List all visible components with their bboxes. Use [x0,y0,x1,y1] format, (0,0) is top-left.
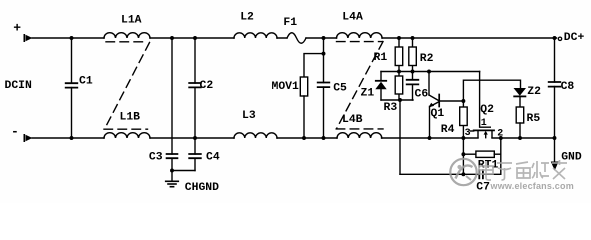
svg-text:DC+: DC+ [564,32,585,44]
capacitor C8 [549,38,561,138]
node RT1 right top [499,136,503,140]
svg-text:GND: GND [561,151,582,163]
svg-text:C4: C4 [206,152,220,164]
node Q1 base / R4 [461,99,465,103]
node MOV1/C5 top [322,36,326,40]
wire bottom rail [32,137,555,139]
svg-text:L4B: L4B [342,114,363,126]
node R2/C6 [411,70,415,74]
svg-text:MOV1: MOV1 [272,81,300,93]
svg-text:Z2: Z2 [527,86,541,98]
svg-text:F1: F1 [283,17,297,29]
inductor L1B [104,133,150,138]
svg-text:Q1: Q1 [431,108,445,120]
svg-text:C2: C2 [200,80,214,92]
ground CHGND (chassis) [166,171,179,187]
inductor L1A [104,33,150,38]
svg-text:Q2: Q2 [480,104,494,116]
resistor R3 [395,72,403,101]
capacitor C2 (X cap between rails) [189,38,201,138]
wire top rail [32,37,557,39]
wire bus A (below R1/R2) [381,71,480,73]
wire bus C (Z1/R3/C6 bottoms) [381,99,413,101]
svg-text:C6: C6 [415,89,429,101]
svg-text:3: 3 [465,128,471,139]
transistor Q1 [429,72,464,139]
node C5 bottom [322,136,326,140]
core L4 (dashed) [336,42,383,129]
node C7 left join [461,172,465,176]
svg-text:-: - [11,124,19,139]
svg-text:C8: C8 [561,81,575,93]
fuse F1 [287,33,306,44]
svg-text:R1: R1 [374,52,388,64]
inductor L4A [337,33,383,38]
svg-text:R4: R4 [441,124,455,136]
node C2/C4 bottom [193,136,197,140]
inductor L4B [337,133,382,138]
node C3 top [170,36,174,40]
svg-text:L1B: L1B [120,111,141,123]
wire C5 drop + MOV1 branch [304,38,324,83]
watermark elecfans [450,159,574,191]
svg-text:C7: C7 [476,181,490,193]
capacitor C7 [400,170,501,178]
resistor R2 [409,38,417,72]
svg-text:C5: C5 [333,83,347,95]
inductor L3 [234,133,277,138]
terminal DC+ circle [558,37,561,40]
svg-text:DCIN: DCIN [5,80,33,92]
svg-text:CHGND: CHGND [185,182,219,194]
resistor R5 [516,107,524,138]
svg-text:L2: L2 [240,11,254,23]
svg-text:www.elecfans.com: www.elecfans.com [490,181,574,191]
svg-text:L4A: L4A [342,11,363,23]
node C8 bottom / rail end [553,136,557,140]
svg-text:Z1: Z1 [361,88,375,100]
zener Z2 [514,88,527,107]
zener Z1 [375,72,386,101]
resistor R4 [460,101,468,138]
node Q1 emitter at rail [428,136,432,140]
svg-text:2: 2 [497,129,503,140]
node R3 bottom [398,98,402,102]
node C3/C4 join [170,169,174,173]
svg-text:C1: C1 [79,76,93,88]
node C2 top [193,36,197,40]
svg-text:L1A: L1A [121,15,142,27]
node R2 top [411,36,415,40]
svg-text:R2: R2 [420,53,434,65]
svg-text:+: + [13,21,21,36]
node RT1 left [461,152,465,156]
svg-text:L3: L3 [242,110,256,122]
capacitor C4 (bottom rail to chassis gnd) [189,138,201,171]
core L1 (dashed) [104,42,150,129]
resistor R1 [395,38,403,72]
capacitor C5 [318,83,330,139]
terminal + (input positive) [24,35,32,41]
svg-text:1: 1 [481,118,487,129]
resistor RT1 (across Q2) [463,138,500,174]
node C1 top [70,36,74,40]
wire C3/C4 join [172,170,195,172]
capacitor C6 [407,72,419,101]
capacitor C1 [66,38,78,138]
svg-text:R5: R5 [527,113,541,125]
node R1 bottom [397,70,401,74]
node R1 top [397,36,401,40]
node C1 bottom [70,136,74,140]
node MOV1 branch [322,52,326,56]
node R5 bottom [518,136,522,140]
varistor MOV1 [300,77,307,96]
wire bus B (to Z2) [463,80,520,101]
transistor Q2 (mosfet) [471,72,495,138]
node R4 bottom [461,136,465,140]
svg-text:C3: C3 [149,152,163,164]
inductor L2 [234,33,277,38]
wire MOV1 bottom [303,96,305,138]
wire R3 node drop to C7 line [399,100,401,174]
node C8 top [553,36,557,40]
node Q1 collector riser [427,70,431,74]
capacitor C3 (top rail to chassis gnd) [167,38,178,171]
svg-text:R3: R3 [384,102,398,114]
terminal - (input negative) [24,135,32,141]
ground GND (output) [551,138,559,171]
node MOV1 bottom [302,136,306,140]
